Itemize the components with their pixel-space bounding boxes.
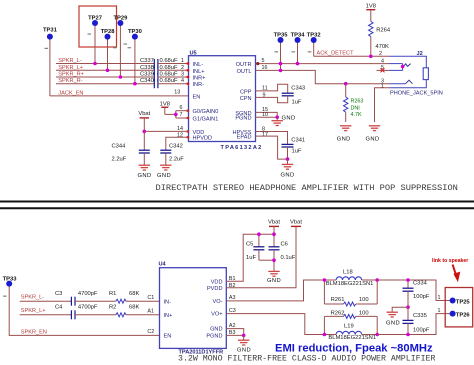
testpoint TP28	[101, 29, 117, 70]
svg-text:GND: GND	[210, 327, 222, 333]
wire OUTL to jack pin5 area	[256, 70, 390, 83]
svg-text:GND: GND	[337, 137, 351, 143]
testpoint TP33	[3, 276, 160, 335]
svg-text:R2: R2	[109, 304, 116, 310]
U5 pin names right	[233, 62, 252, 141]
svg-text:3: 3	[181, 72, 184, 78]
svg-text:C340: C340	[140, 78, 154, 84]
wire SPKR_L- to C3	[20, 300, 72, 302]
junction Vbat rail	[272, 232, 276, 236]
svg-text:R264: R264	[376, 28, 391, 34]
separator line 2	[0, 207, 474, 209]
power Vbat 1 (bottom)	[268, 219, 280, 234]
pin 5 exit dot	[256, 62, 259, 65]
svg-text:17: 17	[262, 132, 268, 138]
svg-text:INL-: INL-	[193, 62, 204, 68]
svg-text:INR+: INR+	[193, 76, 206, 82]
svg-text:C5: C5	[246, 241, 253, 247]
svg-text:CPP: CPP	[240, 89, 252, 95]
junction L19 left	[323, 333, 327, 337]
testpoint TP31	[43, 28, 58, 96]
ground C334/C335	[387, 312, 398, 317]
power Vbat 2 (bottom)	[290, 219, 302, 226]
svg-text:G0/GAIN0: G0/GAIN0	[193, 109, 219, 115]
ground below C341	[282, 164, 293, 169]
svg-text:13: 13	[174, 90, 180, 96]
svg-text:4.7K: 4.7K	[351, 112, 362, 118]
svg-text:CPN: CPN	[240, 96, 252, 102]
svg-text:L18: L18	[343, 270, 353, 276]
separator line 1	[0, 201, 474, 203]
svg-text:C6: C6	[281, 241, 288, 247]
svg-text:TPA6132A2: TPA6132A2	[221, 145, 263, 151]
U4 pin names right	[206, 279, 222, 339]
svg-text:1: 1	[381, 83, 384, 89]
highlight box around TP27/TP28	[79, 6, 117, 47]
junction TP34/OUTR	[296, 62, 300, 66]
svg-text:GND: GND	[138, 173, 152, 179]
svg-text:Vbat: Vbat	[138, 111, 150, 117]
wire SPKR_L+ to C4	[20, 314, 72, 316]
svg-text:C344: C344	[112, 144, 127, 150]
capacitor C335	[403, 307, 430, 334]
capacitor C340	[140, 78, 189, 88]
svg-text:BLM18EG221SN1: BLM18EG221SN1	[326, 281, 374, 287]
junction L18 left	[323, 278, 327, 282]
svg-text:TP25: TP25	[456, 299, 471, 305]
ground jack sleeve	[369, 126, 380, 131]
svg-text:SPKR_EN: SPKR_EN	[21, 329, 47, 335]
capacitor C341	[256, 126, 306, 159]
svg-text:100pF: 100pF	[413, 328, 430, 334]
1V8 power for gains	[160, 102, 176, 115]
svg-text:IN+: IN+	[164, 313, 173, 319]
resistor R1	[109, 291, 160, 303]
svg-text:PHONE_JACK_5PIN: PHONE_JACK_5PIN	[390, 90, 443, 96]
svg-text:GND: GND	[237, 348, 251, 354]
wire HPVDD pin12	[166, 137, 189, 150]
svg-text:C1: C1	[147, 295, 154, 301]
wire SPKR_R+	[56, 76, 154, 78]
svg-text:2: 2	[181, 65, 184, 71]
svg-text:C337: C337	[140, 58, 154, 64]
wire SPKR_L-	[56, 63, 154, 65]
capacitor C344	[112, 131, 150, 165]
svg-text:ACK_DETECT: ACK_DETECT	[317, 51, 355, 57]
svg-text:U4: U4	[159, 262, 167, 268]
wire PVDD B2	[226, 226, 296, 288]
svg-text:GND: GND	[366, 137, 380, 143]
svg-text:16: 16	[262, 65, 268, 71]
capacitor C337	[140, 58, 189, 68]
wire bottom output to TP26	[377, 314, 450, 335]
ground below R263	[340, 126, 351, 131]
speaker link box	[445, 288, 473, 327]
power 1V8 for R264	[366, 4, 376, 22]
svg-text:GND: GND	[267, 278, 281, 284]
svg-text:GND: GND	[386, 321, 400, 327]
junction C335 bottom	[406, 333, 410, 337]
ground below C5/C6	[268, 271, 279, 276]
testpoint TP35	[274, 32, 289, 70]
svg-text:C342: C342	[169, 144, 183, 150]
capacitor C4	[55, 304, 116, 319]
svg-text:VO+: VO+	[211, 312, 222, 318]
svg-text:TP26: TP26	[456, 312, 471, 318]
junction jack tip	[401, 65, 405, 69]
jack pin2 stub	[389, 56, 426, 67]
junction C341/EPAD	[286, 157, 290, 161]
svg-text:VO-: VO-	[213, 299, 223, 305]
wire VO+ C3	[226, 308, 324, 335]
junction L18 right	[375, 278, 379, 282]
testpoint TP25	[450, 298, 471, 306]
capacitor C342	[160, 144, 184, 166]
jack pin1 stub and sleeve	[389, 80, 426, 88]
junction R264/ACK_DETECT	[369, 55, 373, 59]
svg-text:PGND: PGND	[206, 334, 222, 340]
svg-text:Vbat: Vbat	[268, 219, 280, 225]
svg-text:link to speaker: link to speaker	[432, 258, 468, 264]
capacitor C343 flying cap	[256, 84, 306, 105]
svg-text:1uF: 1uF	[292, 99, 302, 105]
SGND/PGND to ground	[256, 107, 280, 120]
svg-text:HPVDD: HPVDD	[193, 136, 213, 142]
svg-text:GND: GND	[157, 173, 171, 179]
junction TP28/SPKR_L+	[106, 69, 110, 73]
svg-text:G1/GAIN1: G1/GAIN1	[193, 117, 219, 123]
wire OUTR to jack pin4	[256, 63, 390, 65]
testpoint TP30	[128, 29, 142, 84]
wire mid to ground	[392, 307, 408, 312]
junction TP27/SPKR_L-	[93, 62, 97, 66]
wire JACK_EN	[50, 95, 189, 97]
svg-text:C4: C4	[55, 304, 63, 310]
svg-text:4: 4	[381, 59, 384, 65]
ground below C342	[160, 165, 171, 170]
op-amp U5 body	[189, 56, 256, 142]
jack pin5 stub	[389, 69, 403, 71]
resistor R263 (DNI)	[344, 84, 364, 122]
svg-text:PGND: PGND	[235, 116, 251, 122]
svg-text:C334: C334	[413, 281, 428, 287]
svg-text:1: 1	[438, 308, 441, 314]
svg-text:A3: A3	[229, 295, 236, 301]
svg-text:14: 14	[177, 126, 183, 132]
testpoint TP29	[113, 16, 128, 78]
testpoint TP26	[450, 311, 471, 319]
svg-text:C338: C338	[140, 65, 154, 71]
svg-text:OUTR: OUTR	[236, 62, 252, 68]
svg-text:68K: 68K	[129, 304, 139, 310]
svg-text:5: 5	[262, 58, 265, 64]
wire VDD B1	[226, 234, 274, 282]
svg-text:4700pF: 4700pF	[78, 304, 98, 310]
svg-text:C335: C335	[413, 313, 427, 319]
ferrite bead L18	[324, 270, 377, 287]
svg-text:68K: 68K	[129, 291, 139, 297]
svg-text:1: 1	[438, 295, 441, 301]
svg-text:2: 2	[379, 51, 382, 57]
testpoint TP27	[88, 16, 102, 64]
svg-text:C2: C2	[147, 329, 154, 335]
svg-text:1uF: 1uF	[292, 149, 302, 155]
wire GND A2 / PGND B3	[226, 323, 245, 340]
svg-text:1V8: 1V8	[160, 102, 170, 108]
svg-text:R1: R1	[109, 291, 116, 297]
ferrite bead L19	[324, 323, 377, 341]
capacitor C339	[140, 72, 189, 82]
ground below U4	[238, 340, 249, 345]
U5 red pin markers pins 1-4	[187, 62, 190, 138]
testpoint TP34	[291, 32, 306, 63]
svg-text:1V8: 1V8	[366, 4, 376, 10]
junction C5/C6 bottom	[272, 258, 276, 262]
amplifier U4 body	[160, 268, 227, 349]
svg-text:100pF: 100pF	[413, 294, 430, 300]
testpoint TP32	[307, 32, 321, 56]
svg-text:C3: C3	[229, 308, 236, 314]
junction 1V8/gains	[174, 113, 178, 117]
svg-text:DNI: DNI	[351, 105, 360, 111]
resistor R262	[324, 310, 377, 334]
wire VO- A3	[226, 280, 324, 301]
resistor R261	[324, 280, 377, 306]
svg-text:2.2uF: 2.2uF	[169, 157, 184, 163]
svg-text:DIRECTPATH STEREO HEADPHONE AM: DIRECTPATH STEREO HEADPHONE AMPLIFIER WI…	[156, 183, 458, 193]
svg-text:A1: A1	[147, 309, 154, 315]
connector J2 phone jack	[389, 51, 443, 96]
svg-text:OUTL: OUTL	[237, 69, 252, 75]
capacitor C6	[269, 234, 296, 271]
svg-text:PVDD: PVDD	[207, 286, 223, 292]
svg-text:TP31: TP31	[43, 28, 58, 34]
svg-text:INL+: INL+	[193, 69, 205, 75]
wire top output to TP25	[377, 280, 450, 301]
svg-text:SPKR_L-: SPKR_L-	[21, 295, 44, 301]
svg-text:7: 7	[180, 112, 183, 118]
svg-text:6: 6	[180, 105, 183, 111]
wire jack pin1 to ground	[375, 88, 390, 122]
svg-text:VDD: VDD	[211, 279, 223, 285]
capacitor C338	[140, 65, 189, 75]
junction C334 top	[406, 278, 410, 282]
svg-text:EMI reduction, Fpeak ~80MHz: EMI reduction, Fpeak ~80MHz	[275, 343, 433, 355]
svg-text:C343: C343	[291, 86, 305, 92]
svg-text:1: 1	[181, 58, 184, 64]
svg-text:EPAD: EPAD	[237, 135, 252, 141]
svg-text:R262: R262	[331, 310, 345, 316]
ground SGND/PGND	[272, 121, 283, 126]
no-connect X on pin5	[381, 68, 385, 72]
jack pin4 stub and tip contact	[389, 63, 403, 65]
svg-text:BLM18EG221SN1: BLM18EG221SN1	[328, 335, 376, 341]
junction TP29/SPKR_R+	[119, 75, 123, 79]
junction Vbat/VDD	[143, 130, 147, 134]
wire VDD pin14	[144, 130, 188, 132]
resistor R264	[369, 21, 391, 56]
capacitor C5	[246, 234, 274, 261]
svg-text:100: 100	[359, 310, 369, 316]
svg-text:4: 4	[181, 78, 184, 84]
svg-text:C3: C3	[55, 291, 62, 297]
svg-text:EN: EN	[193, 94, 201, 100]
svg-text:SPKR_L+: SPKR_L+	[21, 308, 46, 314]
svg-text:IN-: IN-	[164, 299, 172, 305]
U5 pin names left	[193, 62, 219, 142]
svg-text:0.1uF: 0.1uF	[281, 255, 296, 261]
wire ACK_DETECT	[314, 55, 389, 57]
power Vbat top	[138, 111, 150, 131]
U4 pin names left	[164, 299, 173, 339]
svg-text:2.2uF: 2.2uF	[112, 157, 127, 163]
svg-text:C339: C339	[140, 72, 154, 78]
capacitor C3	[55, 291, 116, 306]
svg-text:GND: GND	[282, 116, 296, 122]
capacitor C334	[403, 280, 430, 307]
junction TP30/SPKR_R-	[133, 82, 137, 86]
junction L19 right	[375, 333, 379, 337]
red arrow to box	[453, 265, 461, 283]
svg-text:GND: GND	[281, 173, 295, 179]
junction R263/pin3 wire	[344, 82, 348, 86]
svg-text:100: 100	[359, 297, 369, 303]
svg-text:Vbat: Vbat	[290, 219, 302, 225]
ground below C344	[139, 165, 150, 170]
jack pin3 stub and ring contact	[389, 83, 406, 85]
svg-text:C341: C341	[291, 138, 305, 144]
junction C5 rail	[257, 232, 261, 236]
svg-text:3.2W MONO FILTERR-FREE CLASS-D: 3.2W MONO FILTERR-FREE CLASS-D AUDIO POW…	[178, 355, 435, 364]
junction C334/C335 mid	[406, 305, 410, 309]
wire SPKR_L+	[56, 69, 154, 71]
svg-text:470K: 470K	[375, 44, 389, 50]
wire EPAD pin17	[256, 132, 288, 159]
svg-text:12: 12	[177, 132, 183, 138]
junction TP35/OUTL crossing	[279, 62, 283, 66]
svg-text:R263: R263	[351, 99, 364, 105]
wire jack pin5 stub	[377, 69, 390, 71]
wire G0/G1 feed	[176, 111, 189, 118]
resistor R2	[109, 304, 160, 316]
wire SPKR_R-	[56, 83, 154, 85]
svg-text:L19: L19	[344, 323, 354, 329]
svg-text:U5: U5	[190, 51, 197, 57]
svg-text:INR-: INR-	[193, 82, 205, 88]
svg-text:4700pF: 4700pF	[78, 291, 98, 297]
svg-text:1uF: 1uF	[246, 255, 256, 261]
svg-text:EN: EN	[164, 334, 172, 340]
jack sleeve rectangle	[423, 68, 428, 80]
svg-text:R261: R261	[331, 297, 345, 303]
